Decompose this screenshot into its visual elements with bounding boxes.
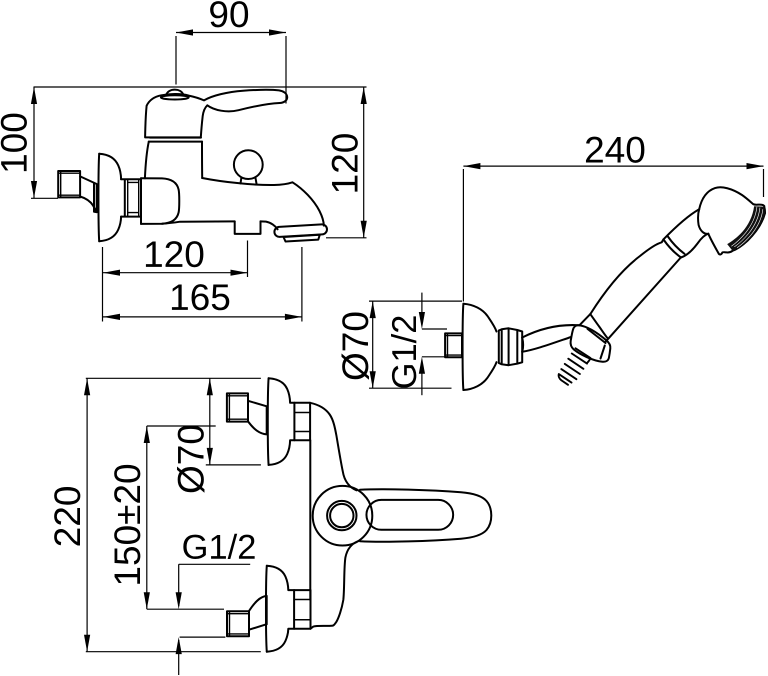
dim 90 ext right [285, 36, 287, 104]
label O70 plan [177, 426, 204, 493]
union nut [121, 178, 141, 224]
label 100 [1, 114, 27, 171]
lower escutcheon rim [265, 566, 268, 652]
spout top edge [202, 178, 324, 226]
dim 240 ext right [763, 169, 765, 197]
neck band bottom [149, 141, 202, 143]
ext outlet center x247.5 [247, 241, 249, 278]
label G12 plan [183, 534, 254, 559]
ext left x102.5 [102, 247, 104, 322]
top extension line y87 [34, 86, 367, 88]
label O70 holder [342, 313, 369, 380]
G12 holder ext bottom [422, 356, 447, 358]
arrow 220 up [84, 378, 90, 395]
arrow 150 down [144, 592, 150, 609]
upper eccentric cone [248, 401, 267, 435]
G12 holder dim upper [421, 293, 423, 323]
holder cup [571, 325, 611, 362]
boss ring outer [327, 501, 356, 530]
holder wall thread nut [445, 333, 462, 357]
spout end lip [284, 235, 320, 242]
holder bell top [463, 304, 496, 332]
dim 120 right line [363, 87, 365, 238]
handle cap dome [166, 90, 184, 96]
body slab left edge [309, 440, 311, 600]
arrow O70h down [370, 371, 376, 388]
arrow 120b left [103, 270, 120, 276]
head lower-left boundary [681, 234, 709, 258]
dim 150 line [146, 426, 148, 609]
lever handle outline [145, 90, 287, 138]
dim 120 right ext bottom [326, 237, 367, 239]
arrow 220 down [84, 635, 90, 652]
upper escutcheon rim [267, 378, 270, 465]
G12 plan leader [179, 564, 251, 606]
label G12 holder [391, 316, 416, 387]
holder fork arm bottom [522, 337, 571, 352]
arrow O70plan down [207, 448, 213, 465]
body bottom end [311, 541, 359, 629]
diverter knob [234, 150, 263, 179]
label 120 bottom [146, 241, 203, 267]
arrow 100 down [31, 181, 37, 198]
arrow G12plan up [176, 637, 182, 654]
dim O70 holder line [372, 301, 374, 388]
arrow G12plan down [176, 592, 182, 609]
lever arm [360, 489, 491, 541]
dim 120 bottom line [103, 272, 248, 274]
escutcheon bell top [99, 154, 121, 180]
arrow 240 right [747, 163, 764, 169]
body column right edge [201, 142, 203, 178]
arrow 165 left [103, 314, 120, 320]
upper bell bottom [269, 440, 295, 465]
O70 holder ext top [369, 300, 462, 302]
escutcheon rim [97, 154, 100, 242]
lower bell bottom [267, 629, 294, 652]
arrow 120r up [361, 87, 367, 104]
arrow 120r down [361, 221, 367, 238]
lever boss [313, 486, 373, 546]
face band highlight lines [732, 207, 757, 246]
handle cap band [161, 95, 189, 99]
holder fork arm top [522, 325, 579, 337]
label 240 [586, 137, 644, 163]
body left end cap [141, 178, 179, 224]
shower face band [727, 206, 765, 251]
lower union nut [294, 590, 310, 629]
hose outlet square [235, 221, 261, 234]
plan ext y464.9 [206, 464, 261, 466]
arrow 165 right [285, 314, 302, 320]
neck band top [150, 137, 201, 139]
shower handle lower edge [606, 258, 681, 342]
spout underside [261, 221, 278, 229]
upper wall thread nut [227, 393, 248, 421]
dim 90 ext left [175, 36, 177, 85]
body top end [310, 403, 356, 491]
plan ext y426 [147, 425, 216, 427]
lever slot [366, 500, 453, 530]
plan ext y609.2 [147, 608, 224, 610]
wall thread square nut [58, 171, 80, 197]
lower eccentric cone [249, 596, 267, 630]
label 120 right [332, 134, 358, 191]
plan ext top y378.3 [86, 377, 261, 379]
O70 holder ext bottom [369, 387, 452, 389]
lower wall thread nut [227, 611, 249, 636]
dim 90 line [176, 32, 286, 34]
eccentric cone [80, 176, 97, 212]
holder bell bottom [463, 362, 496, 390]
arrow O70h up [370, 301, 376, 318]
arrow 100 up [31, 87, 37, 104]
G12 holder dim lower [421, 361, 423, 396]
diverter stem [241, 178, 257, 183]
upper union nut [294, 403, 310, 441]
plan ext bottom y651.7 [86, 651, 261, 653]
plan ext y637.1 [180, 636, 226, 638]
dim 240 ext left [462, 169, 464, 302]
upper bell top [269, 378, 295, 403]
arrow 120b right [231, 270, 248, 276]
dim O70 plan line [209, 378, 211, 465]
arrow G12h up [419, 357, 425, 374]
label 220 [54, 487, 80, 545]
dim 100 ext bottom [31, 197, 58, 199]
arrow O70plan up [207, 378, 213, 395]
arrow 90 right [269, 29, 286, 35]
holder fork tip [521, 338, 524, 352]
arrow 90 left [176, 29, 193, 35]
dim 220 line [86, 378, 88, 651]
shower head outline [698, 187, 765, 254]
dim 100 line [33, 87, 35, 198]
escutcheon bell bottom [99, 217, 121, 242]
hose spring coil [559, 348, 591, 385]
dim 240 line [463, 165, 763, 167]
dim 165 line [103, 316, 302, 318]
holder escutcheon rim [462, 304, 465, 390]
G12 plan lower approach [178, 640, 180, 675]
holder cup inner line [588, 329, 606, 359]
label 150+-20 [114, 465, 140, 584]
holder collar rings [499, 328, 522, 365]
G12 holder ext top [422, 328, 447, 330]
lower bell top [267, 566, 294, 590]
arrow G12h down [419, 312, 425, 329]
arrow 150 up [144, 426, 150, 443]
handle lower joint line [590, 314, 607, 338]
label 165 [172, 284, 229, 310]
body bottom edge [162, 221, 235, 223]
label 90 [210, 1, 248, 27]
spout end cap [274, 224, 327, 237]
handle joint band [664, 236, 685, 258]
boss ring inner [330, 504, 353, 527]
ext spout tip x301.9 [301, 247, 303, 322]
shower handle upper edge [579, 209, 699, 325]
arrow 240 left [463, 163, 480, 169]
body column left edge [145, 142, 149, 179]
